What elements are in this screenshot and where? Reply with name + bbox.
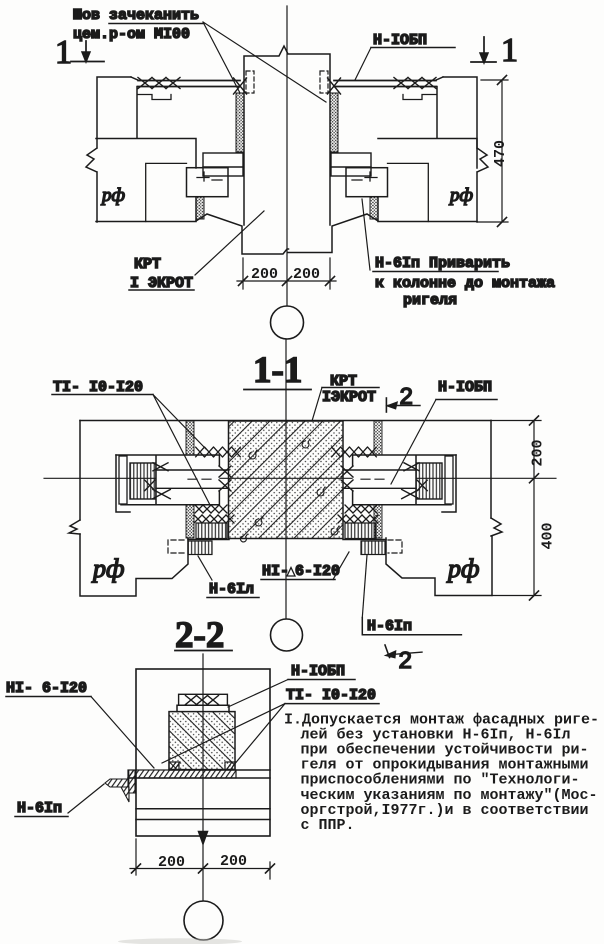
lower weld comb left (Н-6Iл plate) [188,541,212,555]
label КРТ IЭКРОТ [312,373,379,421]
upper weld comb left (НI plate) [196,523,227,539]
weld X marks on left plate [138,78,180,89]
column center axis (top view) [286,6,288,305]
weld X marks left assembly [145,463,171,499]
shelf band hatched (2-2) [128,770,236,778]
right top plate Н-10БП (edge view) [334,81,436,87]
svg-text:рф: рф [448,185,473,206]
weld xxx rows below right bar [338,505,378,523]
weld X marks on right plate [394,78,436,89]
vertical axis of section 1-1 [285,339,287,618]
weld xxx rows below left bar [194,505,234,523]
svg-text:цем.р-ом МI00: цем.р-ом МI00 [73,26,190,43]
concrete column section (hatched) [229,421,344,539]
right support bracket [346,168,388,197]
label: Шов зачеканить цем.р-ом МI00 [73,7,203,43]
svg-text:ригеля: ригеля [403,292,457,309]
label ТI- I0-I20 with leaders [52,379,210,505]
weld X at right column face [341,466,353,491]
Н-6Iп angle piece left (hatched) [105,770,135,802]
svg-text:200: 200 [158,854,185,871]
column axis bubble (top view) [271,306,304,339]
label Н-6Iл with leader [198,556,259,598]
svg-text:с ППР.: с ППР. [301,817,355,834]
label Н-6Iп lower with leader [362,555,461,635]
wall horizontal joint lines [128,770,270,820]
axis bubble below 2-2 [184,901,223,940]
weld xxx row above left bar [196,447,241,457]
left block inner bearing lines [146,163,187,221]
right pocket frame [442,455,456,512]
svg-text:Н-IОБП: Н-IОБП [373,32,427,49]
weld X at right joint [328,78,341,94]
label Н-10БП right with leader [391,379,497,484]
left joint mortar strip at column face [236,93,244,152]
label НI-6-I20 with leader [261,552,349,580]
svg-text:Н-6Iл: Н-6Iл [209,581,254,598]
section mark 2 upper [386,385,420,412]
dimension 200 200 (2-2) [130,839,275,879]
upper weld comb right (НI plate) [345,523,376,539]
concrete pebble marks [240,439,339,542]
svg-text:рф: рф [100,185,125,206]
mortar strip below left bracket [196,197,204,219]
left anchor plate (vertical hatch) [130,463,156,499]
label НI- 6-I20 with leader [6,680,154,768]
weld X at left joint [234,78,247,94]
left corbel plates on column [203,153,243,176]
left joint seam strip (mortar) [186,421,194,538]
lower weld comb right (Н-6Iп plate) [361,541,385,555]
weld X marks on plate 2-2 [186,696,219,705]
label Н-6Iп (2-2) with leader [15,784,104,817]
scan smudge at bottom [118,938,242,944]
right bearing bar Н-10БП in section [343,455,456,505]
vertical axis of view 2-2 [199,654,208,900]
svg-text:Шов зачеканить: Шов зачеканить [73,7,199,24]
small bracket mark left [168,540,184,553]
label: Н-6Iп Приварить к колонне до монтажа ригеля [362,199,555,309]
horizontal centerline of section 1-1 [44,477,556,479]
right beam outline in 1-1 [386,421,502,596]
right beam inner step line [436,87,438,139]
plate Н-10БП on top (2-2) [177,694,229,711]
svg-text:к колонне до монтажа: к колонне до монтажа [375,275,555,292]
beam cross-section (hatched) 2-2 [169,712,235,770]
leader wires from Шов label to joints [203,22,326,102]
right block inner bearing lines [388,163,429,221]
note text block [284,712,599,834]
svg-text:200: 200 [530,439,547,466]
svg-text:400: 400 [540,522,557,549]
svg-text:Н-6Iп Приварить: Н-6Iп Приварить [375,255,510,272]
right corbel plates on column [331,153,371,176]
svg-text:1: 1 [55,34,72,71]
left beam bottom edge under joint [188,539,229,541]
weld xxx row above right bar [332,447,377,457]
column outline [244,46,330,225]
right beam outer outline [435,77,488,222]
dashed plate end left [246,71,254,93]
dimension 470 (top view right) [478,76,509,227]
svg-text:рф: рф [91,554,124,583]
left support bracket [187,168,229,197]
svg-text:ТI- I0-I20: ТI- I0-I20 [53,379,143,396]
svg-text:2: 2 [399,385,413,412]
right joint mortar strip at column face [330,93,338,152]
svg-text:ТI- I0-I20: ТI- I0-I20 [286,687,376,704]
right beam bottom edge under joint [343,539,386,541]
svg-text:IЭКРОТ: IЭКРОТ [322,389,376,406]
svg-text:Н-6Iп: Н-6Iп [17,800,62,817]
wall panel outline (2-2 square) [136,669,270,836]
mortar strip below right bracket [370,197,378,219]
weld X at left column face [219,466,231,491]
label Н-10БП (2-2 right) with leader [228,663,355,707]
svg-text:Н-6Iп: Н-6Iп [367,618,412,635]
svg-text:1-1: 1-1 [253,350,302,391]
left beam (ригель) outer outline [86,77,139,222]
svg-text:НI-: НI- [262,563,289,580]
dimension 200 200 (top view) [237,258,336,289]
right anchor plate (vertical hatch) [416,463,442,499]
svg-text:470: 470 [492,140,509,167]
svg-text:Н-IОБП: Н-IОБП [291,663,345,680]
label ТI- I0-I20 (2-2 right) with leaders [162,687,379,766]
left pocket frame [116,455,130,512]
title 1-1 [244,350,311,391]
left bearing bar Н-10БП in section [116,455,229,505]
section 1-1 top edge [80,420,491,422]
svg-text:рф: рф [446,554,479,583]
svg-text:Н-IОБП: Н-IОБП [438,379,492,396]
small bracket mark right [388,540,402,553]
svg-text:200: 200 [220,853,247,870]
weld X marks right assembly [402,463,428,499]
column bottom flare outline [196,214,378,254]
axis bubble below 1-1 [271,619,303,651]
svg-text:2: 2 [398,649,412,676]
label: Н-10БП top right [355,32,455,80]
svg-text:КРТ: КРТ [134,256,161,273]
svg-text:200: 200 [293,266,320,283]
label: КРТ I ЭКРОТ [129,211,264,292]
left beam lower block [96,139,196,222]
left beam outline in 1-1 [69,421,188,597]
right beam lower block [378,139,477,222]
section mark 1 right [471,32,518,69]
left top plate Н-10БП (edge view) [138,81,240,87]
dimensions 200 and 400 (right of 1-1) [491,416,557,600]
section mark 2 lower [385,645,422,676]
section mark 1 left [55,34,104,71]
weld notch under left plate [138,95,171,100]
svg-text:6-I20: 6-I20 [295,563,340,580]
right joint seam strip (mortar) [374,421,382,538]
dashed plate end right [320,71,328,93]
weld notch under right plate [403,95,436,100]
svg-text:1: 1 [501,32,518,69]
svg-text:НI- 6-I20: НI- 6-I20 [6,680,87,697]
title 2-2 [175,615,232,656]
left beam inner step line [136,87,138,139]
ТI corner pads (2-2) [169,762,236,770]
svg-text:200: 200 [251,266,278,283]
